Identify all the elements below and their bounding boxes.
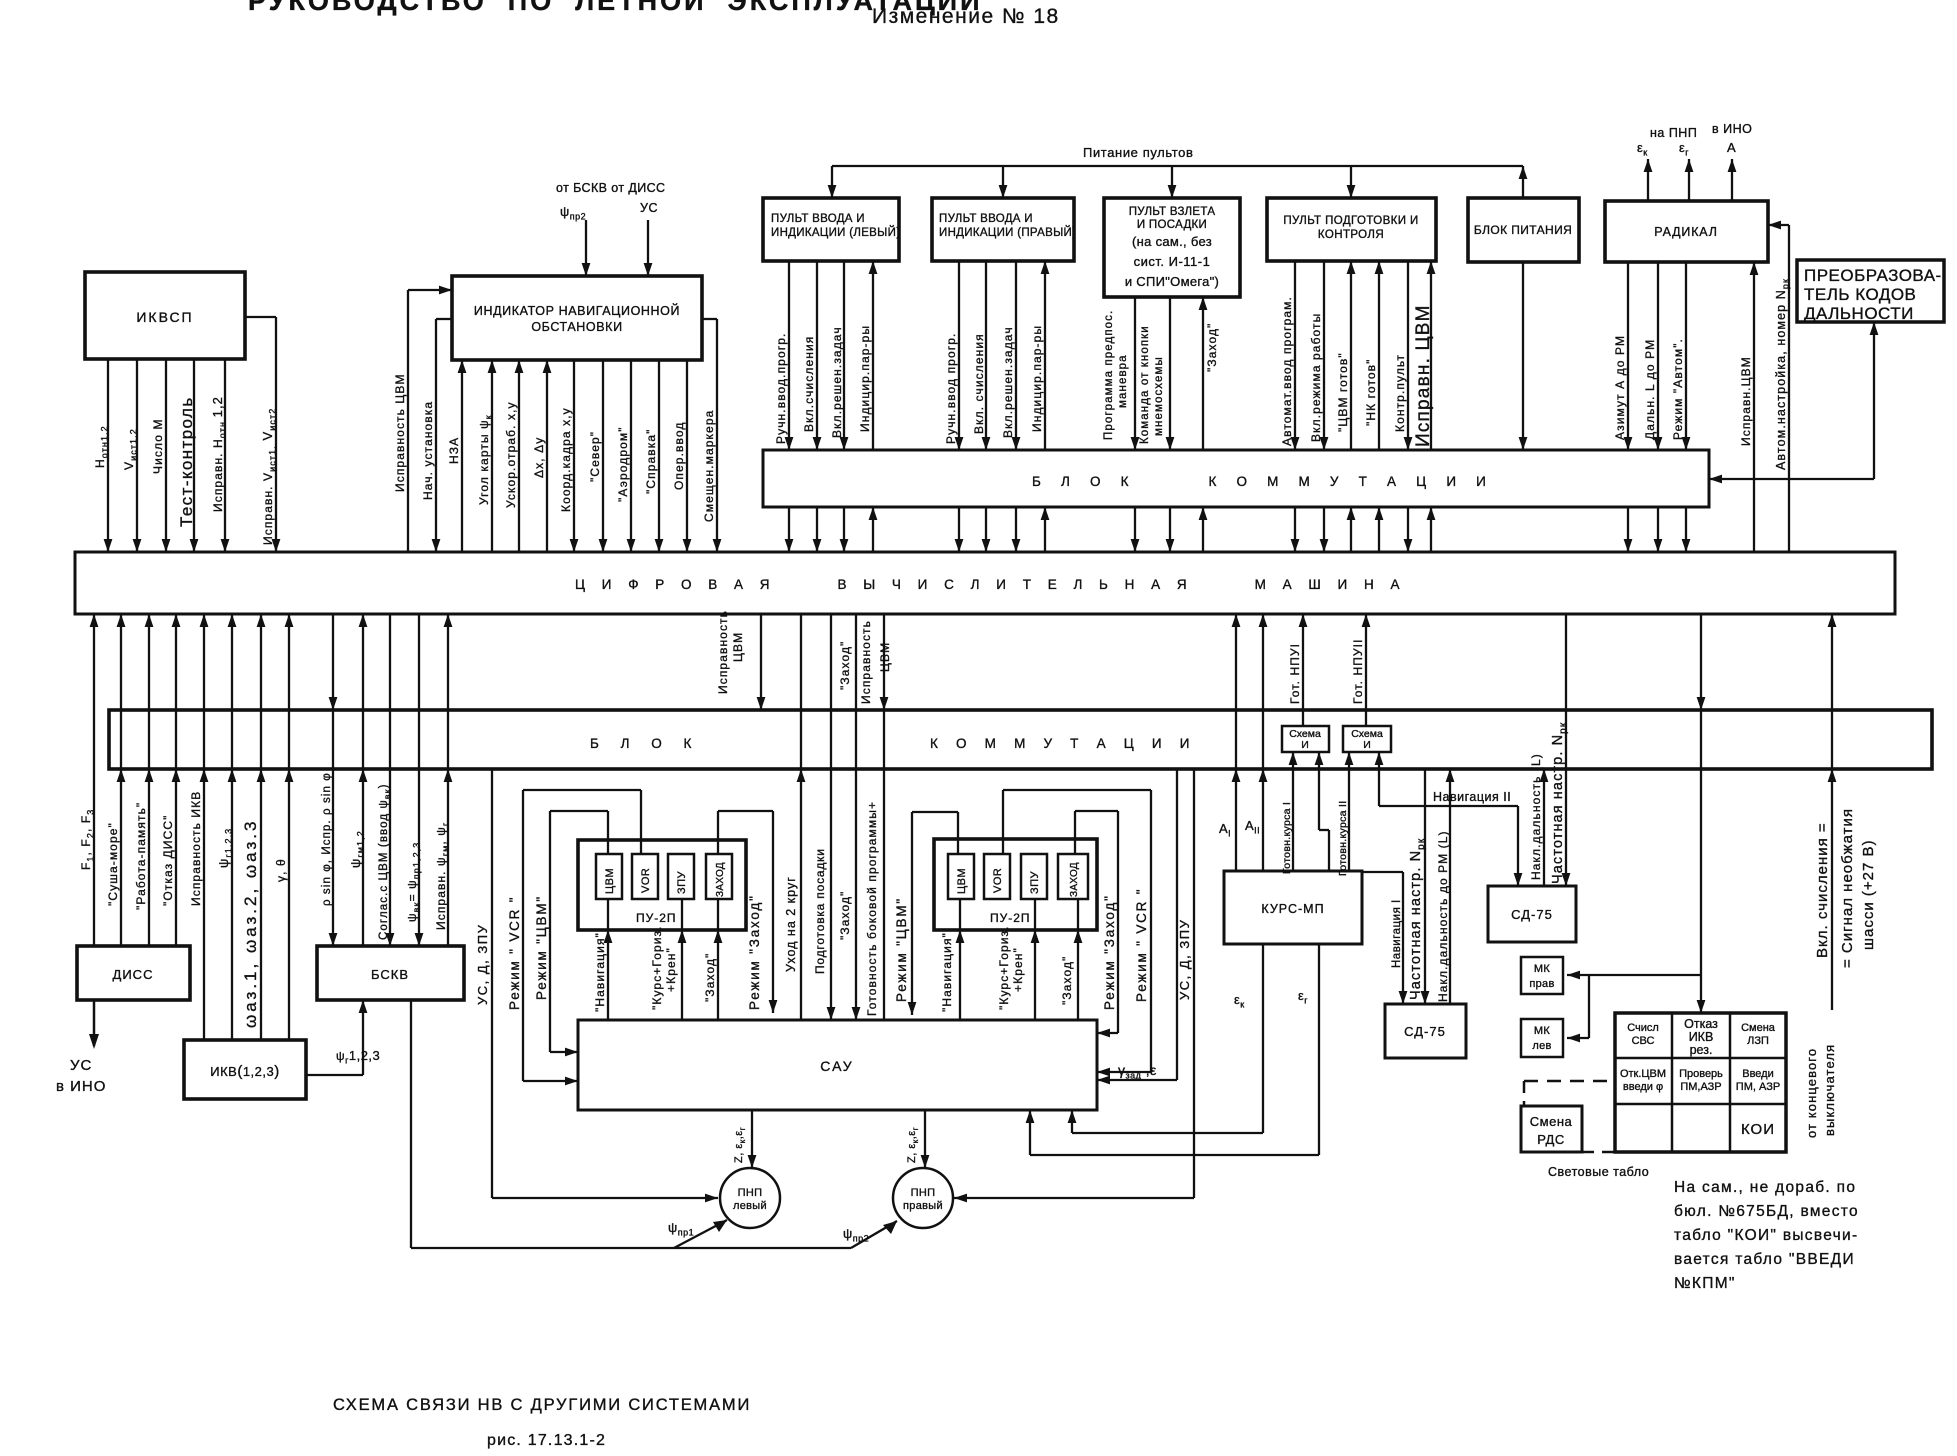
svg-text:Режим "ЦВМ": Режим "ЦВМ" xyxy=(894,897,909,1002)
svg-text:НЗА: НЗА xyxy=(447,437,461,464)
svg-text:Режим "Автом".: Режим "Автом". xyxy=(1671,338,1685,440)
svg-text:ДИСС: ДИСС xyxy=(113,967,154,982)
svg-text:табло "КОИ" высвечи-: табло "КОИ" высвечи- xyxy=(1674,1227,1858,1244)
svg-text:ЗАХОД: ЗАХОД xyxy=(1069,862,1080,897)
svg-text:Тест-контроль: Тест-контроль xyxy=(177,396,196,527)
svg-text:Гот. НПУI: Гот. НПУI xyxy=(1288,643,1302,704)
svg-text:рез.: рез. xyxy=(1690,1043,1713,1057)
svg-text:ОБСТАНОВКИ: ОБСТАНОВКИ xyxy=(531,320,622,334)
svg-text:Накл.дальность до РМ (L): Накл.дальность до РМ (L) xyxy=(1436,830,1450,1002)
svg-text:МК: МК xyxy=(1534,1025,1550,1037)
svg-text:Введи: Введи xyxy=(1742,1068,1774,1080)
svg-text:Б Л О К: Б Л О К xyxy=(590,736,700,751)
svg-text:ИКВ: ИКВ xyxy=(1689,1030,1714,1044)
svg-text:Вкл. счисления =: Вкл. счисления = xyxy=(1814,822,1831,958)
svg-text:ПУЛЬТ ВЗЛЕТА: ПУЛЬТ ВЗЛЕТА xyxy=(1129,206,1216,218)
svg-text:Изменение № 18: Изменение № 18 xyxy=(872,5,1060,28)
svg-text:Готовность боковой программы+: Готовность боковой программы+ xyxy=(865,801,879,1016)
svg-text:ПУ-2П: ПУ-2П xyxy=(636,911,677,925)
svg-text:Исправн. ЦВМ: Исправн. ЦВМ xyxy=(1413,304,1434,447)
svg-text:+Крен": +Крен" xyxy=(664,947,678,992)
svg-text:СД-75: СД-75 xyxy=(1511,907,1553,922)
svg-text:Режим "ЦВМ": Режим "ЦВМ" xyxy=(534,895,549,1000)
svg-text:Индицир.пар-ры: Индицир.пар-ры xyxy=(858,325,872,432)
svg-text:Ц И Ф Р О В А Я В Ы Ч И С: Ц И Ф Р О В А Я В Ы Ч И С Л И Т Е Л Ь Н … xyxy=(575,577,1406,592)
svg-text:ИНДИКАЦИИ (ЛЕВЫЙ): ИНДИКАЦИИ (ЛЕВЫЙ) xyxy=(771,226,900,239)
svg-text:Вкл.режима работы: Вкл.режима работы xyxy=(1309,313,1323,442)
svg-text:УС, Д, ЗПУ: УС, Д, ЗПУ xyxy=(1177,919,1192,1000)
svg-text:КОИ: КОИ xyxy=(1741,1121,1775,1138)
svg-text:"Работа-память": "Работа-память" xyxy=(134,802,148,910)
svg-text:сист. И-11-1: сист. И-11-1 xyxy=(1134,254,1211,269)
svg-text:Z, εк,εг: Z, εк,εг xyxy=(733,1127,747,1163)
svg-text:САУ: САУ xyxy=(820,1058,853,1074)
svg-text:"Заход": "Заход" xyxy=(838,641,852,690)
svg-text:Опер.ввод: Опер.ввод xyxy=(672,422,686,490)
svg-text:ДАЛЬНОСТИ: ДАЛЬНОСТИ xyxy=(1804,304,1914,323)
svg-text:= Сигнал необжатия: = Сигнал необжатия xyxy=(1839,808,1856,968)
svg-text:ИНДИКАТОР НАВИГАЦИОННОЙ: ИНДИКАТОР НАВИГАЦИОННОЙ xyxy=(474,303,680,318)
svg-text:мнемосхемы: мнемосхемы xyxy=(1153,356,1165,436)
svg-text:ПУЛЬТ ВВОДА И: ПУЛЬТ ВВОДА И xyxy=(771,213,865,225)
svg-text:"Суша-море": "Суша-море" xyxy=(106,822,120,906)
svg-text:маневра: маневра xyxy=(1117,354,1129,408)
svg-text:"Навигация": "Навигация" xyxy=(593,932,607,1012)
svg-text:ПРЕОБРАЗОВА-: ПРЕОБРАЗОВА- xyxy=(1804,266,1942,285)
svg-text:"Заход": "Заход" xyxy=(1205,323,1219,372)
svg-text:ρ sin φ, Испр. ρ sin φ: ρ sin φ, Испр. ρ sin φ xyxy=(321,772,333,906)
svg-text:VOR: VOR xyxy=(992,868,1004,893)
svg-text:Исправн.ЦВМ: Исправн.ЦВМ xyxy=(1739,356,1753,446)
svg-text:ПНП: ПНП xyxy=(738,1187,763,1199)
svg-text:Азимут А до РМ: Азимут А до РМ xyxy=(1613,335,1627,440)
svg-text:прав: прав xyxy=(1529,978,1554,990)
svg-text:вается табло "ВВЕДИ: вается табло "ВВЕДИ xyxy=(1674,1251,1855,1268)
svg-text:Отказ: Отказ xyxy=(1684,1017,1718,1031)
svg-text:Дальн. L до РМ: Дальн. L до РМ xyxy=(1643,339,1657,440)
svg-text:ИНДИКАЦИИ (ПРАВЫЙ): ИНДИКАЦИИ (ПРАВЫЙ) xyxy=(939,226,1076,239)
svg-text:БСКВ: БСКВ xyxy=(371,967,409,982)
svg-text:в ИНО: в ИНО xyxy=(1712,122,1752,136)
svg-text:УС: УС xyxy=(70,1057,92,1074)
svg-text:от концевого: от концевого xyxy=(1804,1048,1819,1138)
svg-text:Накл.дальность (L): Накл.дальность (L) xyxy=(1529,753,1543,880)
svg-text:Б Л О К К О М М У Т А Ц И: Б Л О К К О М М У Т А Ц И И xyxy=(1032,474,1494,489)
svg-text:"Заход": "Заход" xyxy=(1060,956,1074,1005)
svg-text:от БСКВ от ДИСС: от БСКВ от ДИСС xyxy=(556,181,665,195)
svg-text:УС: УС xyxy=(640,201,658,215)
svg-text:Контр.пульт: Контр.пульт xyxy=(1393,354,1407,432)
svg-text:На сам., не дораб. по: На сам., не дораб. по xyxy=(1674,1179,1856,1196)
svg-text:ЗПУ: ЗПУ xyxy=(676,870,688,894)
svg-text:"Заход": "Заход" xyxy=(703,953,717,1002)
svg-text:правый: правый xyxy=(903,1200,943,1212)
svg-text:ИКВ(1,2,3): ИКВ(1,2,3) xyxy=(210,1063,280,1080)
svg-text:ИКВСП: ИКВСП xyxy=(136,309,193,325)
svg-text:УС, Д, ЗПУ: УС, Д, ЗПУ xyxy=(475,924,490,1005)
svg-text:"НК готов": "НК готов" xyxy=(1364,359,1378,426)
svg-text:Смена: Смена xyxy=(1530,1114,1573,1129)
svg-text:ωаз.1, ωаз.2, ωаз.3: ωаз.1, ωаз.2, ωаз.3 xyxy=(241,819,260,1028)
svg-text:"Курс+Гориз.: "Курс+Гориз. xyxy=(997,925,1011,1010)
svg-text:Готовн.курса I: Готовн.курса I xyxy=(1281,802,1293,874)
svg-text:Исправность: Исправность xyxy=(716,610,730,694)
svg-text:Навигация I: Навигация I xyxy=(1391,899,1403,968)
svg-text:"ЦВМ готов": "ЦВМ готов" xyxy=(1336,352,1350,432)
svg-text:выключателя: выключателя xyxy=(1822,1044,1837,1136)
svg-text:Режим " VCR ": Режим " VCR " xyxy=(1134,888,1149,1002)
svg-text:ЦВМ: ЦВМ xyxy=(878,642,892,672)
svg-text:"Аэродром": "Аэродром" xyxy=(616,426,630,502)
svg-text:Световые табло: Световые табло xyxy=(1548,1165,1649,1179)
svg-text:СД-75: СД-75 xyxy=(1404,1024,1446,1039)
svg-text:ЗПУ: ЗПУ xyxy=(1029,870,1041,894)
svg-text:Питание пультов: Питание пультов xyxy=(1083,145,1193,160)
svg-text:Исправн. Нотн.1,2: Исправн. Нотн.1,2 xyxy=(210,396,228,512)
svg-text:Нач. установка: Нач. установка xyxy=(421,401,435,500)
svg-text:γ, θ: γ, θ xyxy=(274,858,288,882)
svg-text:Вкл.счисления: Вкл.счисления xyxy=(802,336,816,432)
svg-text:VOR: VOR xyxy=(640,868,652,893)
svg-text:ψг1,2,3: ψг1,2,3 xyxy=(336,1048,380,1066)
svg-text:Смена: Смена xyxy=(1741,1022,1776,1034)
svg-text:+Крен": +Крен" xyxy=(1011,947,1025,992)
svg-text:Число М: Число М xyxy=(151,418,165,474)
svg-text:№КПМ": №КПМ" xyxy=(1674,1275,1736,1292)
svg-text:И: И xyxy=(1363,739,1371,751)
svg-text:лев: лев xyxy=(1532,1040,1551,1052)
svg-text:К О М М У Т А Ц И И: К О М М У Т А Ц И И xyxy=(930,736,1197,751)
svg-text:бюл. №675БД, вместо: бюл. №675БД, вместо xyxy=(1674,1203,1859,1220)
svg-text:Отк.ЦВМ: Отк.ЦВМ xyxy=(1620,1068,1666,1080)
svg-text:И ПОСАДКИ: И ПОСАДКИ xyxy=(1137,219,1207,231)
svg-text:ПМ,АЗР: ПМ,АЗР xyxy=(1680,1081,1721,1093)
svg-text:СВС: СВС xyxy=(1632,1035,1655,1047)
svg-text:Индицир.пар-ры: Индицир.пар-ры xyxy=(1030,325,1044,432)
svg-text:СХЕМА СВЯЗИ НВ С ДРУГИМИ СИСТЕ: СХЕМА СВЯЗИ НВ С ДРУГИМИ СИСТЕМАМИ xyxy=(333,1396,751,1414)
svg-text:шасси (+27 В): шасси (+27 В) xyxy=(1860,839,1877,950)
svg-text:Вкл. счисления: Вкл. счисления xyxy=(972,333,986,434)
svg-text:ПУ-2П: ПУ-2П xyxy=(990,911,1031,925)
svg-text:Команда от кнопки: Команда от кнопки xyxy=(1139,325,1151,444)
svg-text:КОНТРОЛЯ: КОНТРОЛЯ xyxy=(1318,229,1384,241)
svg-text:"Север": "Север" xyxy=(588,431,602,482)
svg-text:Режим "Заход": Режим "Заход" xyxy=(1102,894,1117,1010)
svg-text:А: А xyxy=(1727,140,1736,155)
svg-text:на ПНП: на ПНП xyxy=(1650,126,1697,140)
svg-text:КУРС-МП: КУРС-МП xyxy=(1261,902,1324,916)
svg-text:в ИНО: в ИНО xyxy=(56,1078,106,1095)
svg-text:ЗАХОД: ЗАХОД xyxy=(715,862,726,897)
svg-text:ТЕЛЬ КОДОВ: ТЕЛЬ КОДОВ xyxy=(1804,285,1916,304)
svg-text:Исправность ЦВМ: Исправность ЦВМ xyxy=(393,373,407,492)
svg-text:Исправность: Исправность xyxy=(859,620,873,704)
svg-text:левый: левый xyxy=(733,1200,767,1212)
svg-text:Уход на 2 круг: Уход на 2 круг xyxy=(784,876,798,972)
svg-text:"Навигация": "Навигация" xyxy=(940,932,954,1012)
svg-text:Готовн.курса II: Готовн.курса II xyxy=(1337,801,1349,876)
svg-text:Вкл.решен.задач: Вкл.решен.задач xyxy=(830,326,844,438)
svg-text:Гот. НПУII: Гот. НПУII xyxy=(1351,638,1365,704)
svg-text:Подготовка посадки: Подготовка посадки xyxy=(813,848,827,974)
svg-text:рис. 17.13.1-2: рис. 17.13.1-2 xyxy=(487,1432,606,1449)
svg-text:РДС: РДС xyxy=(1537,1132,1565,1147)
svg-text:И: И xyxy=(1301,739,1309,751)
svg-text:Ручн.ввод прогр.: Ручн.ввод прогр. xyxy=(944,333,958,444)
svg-text:МК: МК xyxy=(1534,963,1550,975)
svg-text:Режим "Заход": Режим "Заход" xyxy=(747,894,762,1010)
svg-text:(на сам., без: (на сам., без xyxy=(1132,234,1212,249)
svg-text:ПУЛЬТ ВВОДА И: ПУЛЬТ ВВОДА И xyxy=(939,213,1033,225)
svg-text:ПМ, АЗР: ПМ, АЗР xyxy=(1736,1081,1780,1093)
svg-text:ЦВМ: ЦВМ xyxy=(604,868,616,894)
svg-text:"Справка": "Справка" xyxy=(644,429,658,495)
svg-text:Автомат.ввод програм.: Автомат.ввод програм. xyxy=(1280,296,1294,446)
svg-text:ЦВМ: ЦВМ xyxy=(731,632,745,662)
svg-text:Режим " VCR ": Режим " VCR " xyxy=(507,896,522,1010)
svg-text:Навигация II: Навигация II xyxy=(1433,790,1511,804)
svg-text:Счисл: Счисл xyxy=(1627,1022,1659,1034)
svg-text:Коорд.кадра х,у: Коорд.кадра х,у xyxy=(559,407,573,512)
svg-text:Z, εк,εг: Z, εк,εг xyxy=(906,1127,920,1163)
svg-text:Ручн.ввод.прогр.: Ручн.ввод.прогр. xyxy=(774,333,788,444)
svg-text:Проверь: Проверь xyxy=(1679,1068,1723,1080)
svg-text:введи φ: введи φ xyxy=(1623,1081,1663,1093)
svg-text:Ускор.отраб. х,у: Ускор.отраб. х,у xyxy=(504,401,518,508)
svg-text:Смещен.маркера: Смещен.маркера xyxy=(702,410,716,522)
svg-text:и СПИ"Омега"): и СПИ"Омега") xyxy=(1125,274,1219,289)
svg-text:ПНП: ПНП xyxy=(911,1187,936,1199)
svg-text:"Курс+Гориз.: "Курс+Гориз. xyxy=(650,925,664,1010)
svg-text:ЦВМ: ЦВМ xyxy=(956,868,968,894)
svg-text:ПУЛЬТ ПОДГОТОВКИ И: ПУЛЬТ ПОДГОТОВКИ И xyxy=(1283,215,1418,227)
svg-text:Вкл.решен.задач: Вкл.решен.задач xyxy=(1001,326,1015,438)
svg-text:БЛОК ПИТАНИЯ: БЛОК ПИТАНИЯ xyxy=(1474,223,1572,237)
svg-text:"Отказ ДИСС": "Отказ ДИСС" xyxy=(161,814,175,906)
svg-text:РАДИКАЛ: РАДИКАЛ xyxy=(1654,225,1717,239)
svg-text:"Заход": "Заход" xyxy=(838,891,852,940)
svg-text:ЛЗП: ЛЗП xyxy=(1747,1035,1769,1047)
svg-text:Δх, Δу: Δх, Δу xyxy=(532,437,546,478)
svg-text:Программа предпос.: Программа предпос. xyxy=(1103,310,1115,440)
svg-text:Исправность ИКВ: Исправность ИКВ xyxy=(189,791,203,906)
